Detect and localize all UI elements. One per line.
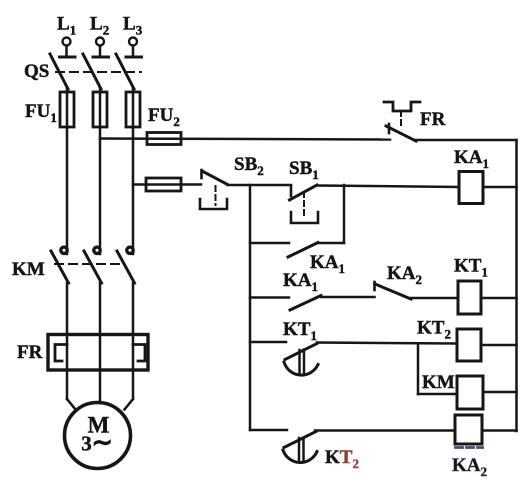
wire phase C lower — [132, 283, 135, 399]
svg-text:FU1: FU1 — [25, 101, 57, 125]
svg-text:KT1: KT1 — [283, 319, 317, 343]
svg-text:FR: FR — [17, 342, 43, 363]
wire control second from L3 — [133, 183, 201, 186]
pushbutton SB2 — [200, 154, 264, 209]
wire SB1 to KA1 coil — [317, 186, 459, 188]
svg-text:KA1: KA1 — [454, 147, 489, 171]
svg-text:FU2: FU2 — [148, 105, 180, 129]
wire KT1 coil to rail — [481, 297, 517, 300]
svg-text:KT2: KT2 — [325, 447, 359, 471]
fuse FU3 — [146, 178, 181, 191]
svg-text:KA2: KA2 — [387, 263, 422, 287]
wire phase A lower — [66, 283, 69, 399]
contact KA1 latch — [288, 243, 345, 277]
wire phase A column — [66, 89, 69, 254]
wire KT2 contact to KA2 coil — [315, 429, 455, 432]
svg-text:KA1: KA1 — [283, 270, 318, 294]
contactor KM main contacts — [12, 247, 135, 283]
fuse FU2 — [147, 105, 181, 145]
wire bottom branch left — [250, 429, 287, 432]
wire motor lead A — [67, 399, 76, 410]
wire latch branch left — [250, 242, 289, 245]
wire phase B column — [99, 89, 102, 254]
wire KM coil to rail — [483, 391, 517, 394]
wire KA1 coil to rail — [483, 186, 517, 189]
wire KA1 branch left — [250, 296, 289, 299]
svg-text:QS: QS — [24, 61, 49, 82]
wire motor lead C — [125, 399, 134, 410]
svg-text:L2: L2 — [90, 14, 109, 38]
thermal relay contact FR — [384, 102, 446, 141]
terminal L2 — [90, 14, 109, 58]
contact KA1 — [283, 270, 321, 310]
fuse FU1 — [25, 92, 140, 127]
pushbutton SB1 — [289, 158, 319, 223]
wire latch branch right — [318, 242, 344, 245]
contact KT1 delayed — [283, 319, 318, 375]
wire riser to KM coil — [418, 393, 457, 396]
wire phase B lower — [99, 283, 102, 403]
svg-text:KA1: KA1 — [310, 252, 345, 276]
wire FR to right rail corner — [416, 139, 517, 142]
contact KA2 — [375, 263, 423, 299]
wire KT2 coil to rail — [481, 344, 517, 347]
wire control top from L2 — [100, 139, 390, 140]
svg-text:KT2: KT2 — [417, 318, 451, 342]
svg-text:KA2: KA2 — [452, 455, 487, 479]
wire KT1 branch left — [250, 341, 286, 344]
svg-text:KT1: KT1 — [454, 256, 488, 280]
svg-text:KM: KM — [422, 372, 455, 393]
svg-text:SB2: SB2 — [234, 154, 264, 178]
wire KA2 contact to KT1 coil — [411, 297, 458, 300]
wire SB2 to SB1 — [228, 184, 292, 187]
wire phase C column — [132, 89, 135, 254]
relay coil KA1 — [454, 147, 489, 204]
terminal L3 — [123, 14, 143, 58]
wire latch riser — [343, 185, 346, 243]
svg-text:3∼: 3∼ — [81, 430, 112, 457]
motor M — [65, 403, 131, 469]
relay coil KA2 — [452, 415, 487, 479]
wire left rail — [249, 185, 252, 430]
wire KT1 contact to KT2 coil — [317, 343, 457, 344]
wire right rail — [515, 140, 518, 431]
svg-text:SB1: SB1 — [289, 158, 319, 182]
svg-text:FR: FR — [420, 109, 446, 130]
terminal L1 — [57, 14, 76, 58]
contact KT2 delayed — [283, 432, 359, 472]
contactor coil KM — [422, 372, 483, 409]
svg-text:L3: L3 — [123, 14, 143, 38]
timer coil KT1 — [454, 256, 488, 315]
timer coil KT2 — [417, 318, 481, 362]
svg-text:L1: L1 — [57, 14, 76, 38]
thermal relay FR heaters — [17, 335, 148, 371]
switch QS — [24, 54, 141, 89]
wire KA2 coil to rail — [482, 429, 517, 432]
wire KA1 contact to KA2 contact — [321, 296, 375, 299]
wire KM branch riser — [417, 344, 420, 395]
svg-text:KM: KM — [12, 259, 45, 280]
